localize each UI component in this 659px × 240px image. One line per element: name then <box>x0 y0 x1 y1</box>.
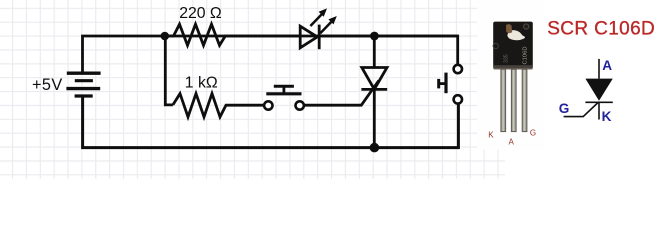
wire: button S1 to SCR gate <box>304 81 379 106</box>
resistor R2 1 kohm <box>173 94 264 117</box>
wire: junction to 1k resistor (left branch) <box>165 36 173 105</box>
svg-text:A: A <box>509 137 515 146</box>
SCR symbol diagram (right) <box>564 59 613 120</box>
node B: junction dot at SCR anode <box>370 32 379 41</box>
terminal label K <box>602 109 612 124</box>
title SCR C106D <box>547 18 655 39</box>
pin label K <box>488 130 494 139</box>
node A: junction dot top-left <box>161 32 170 41</box>
battery B1 <box>66 73 100 96</box>
svg-text:K: K <box>488 130 494 139</box>
svg-text:1 kΩ: 1 kΩ <box>185 74 218 91</box>
pushbutton S1 (gate button) <box>264 86 304 109</box>
svg-text:G: G <box>559 101 570 116</box>
wire: top rail from battery + to top-right corner <box>83 36 458 73</box>
resistor R1 220 ohm <box>165 24 300 45</box>
label 1 kohm <box>185 74 218 91</box>
terminal label A <box>602 58 612 73</box>
svg-text:+5V: +5V <box>32 76 63 94</box>
LED light-emission arrows <box>310 13 322 26</box>
svg-text:A: A <box>602 58 612 73</box>
svg-text:220 Ω: 220 Ω <box>179 5 222 22</box>
svg-text:335: 335 <box>504 54 510 63</box>
terminal label G <box>559 101 570 116</box>
pin label G <box>530 128 536 137</box>
svg-text:K: K <box>602 109 612 124</box>
svg-text:G: G <box>530 128 536 137</box>
wire: bottom rail from battery - to bottom-right corner <box>83 96 459 148</box>
transistor package photo (SCR C106D, TO-126) <box>493 22 533 70</box>
pin label A <box>509 137 515 146</box>
SCR Q1 <box>361 36 387 148</box>
LED D1 <box>300 8 337 49</box>
label +5V <box>32 76 63 94</box>
wire: LED cathode to SCR anode node and onward <box>319 35 458 38</box>
photo background of TO-126 package <box>477 0 545 150</box>
svg-text:SCR C106D: SCR C106D <box>547 18 655 39</box>
package legs <box>501 69 527 131</box>
node C: junction dot at SCR cathode / bottom rail <box>370 143 380 153</box>
svg-text:C106D: C106D <box>523 46 529 64</box>
pushbutton S2 (right, reset) <box>439 65 462 104</box>
label 220 ohm <box>179 5 222 22</box>
